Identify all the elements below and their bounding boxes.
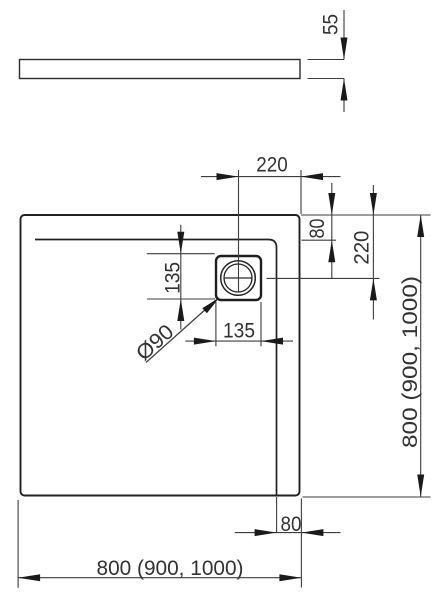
plan view: outer square [21,215,300,496]
drain square [216,256,261,300]
ext line drain left down [215,302,217,346]
arrow down at top edge ext [328,193,335,215]
ext line left edge below square [17,500,19,588]
top dimension 220 [201,176,341,178]
arrow up at drain bottom ext [177,299,184,321]
svg-text:800 (900, 1000): 800 (900, 1000) [97,557,244,580]
arrow right at drain left ext [194,338,216,345]
arrow up at top [417,215,424,237]
left vertical dimension 135 [180,225,182,330]
ext line drain center right [267,277,380,279]
right dimension 800 (900, 1000) [420,215,422,497]
ext line bottom edge right [303,496,431,498]
arrow left at left ext [18,574,40,581]
arrow down at top edge ext [370,193,377,215]
arrow left at right edge [301,173,323,180]
ext line drain bottom left [147,298,215,300]
leader arrowhead at drain corner [202,298,219,314]
arrow down at drain top ext [177,232,184,254]
arrow right at drain centerline [217,173,239,180]
arrow down at bottom [417,475,424,497]
arrow right at right ext [279,574,301,581]
ext line inner edge below square [276,497,278,533]
side view: tray profile rectangle [20,60,301,79]
extension line top edge (side view) [308,59,345,61]
leader line for drain diameter [146,300,216,363]
right dimension 80 [331,183,333,279]
ext line inner edge right [302,239,337,241]
arrow up at bottom edge [341,79,348,101]
extension line bottom edge (side view) [308,78,345,80]
svg-text:80: 80 [306,219,329,239]
right dimension 220 [372,185,374,320]
bottom dimension 800 (900, 1000) [18,577,301,579]
horizontal dimension 135 [185,340,293,342]
inner tray edge line [35,240,277,496]
arrow right at inner ext [255,529,277,536]
svg-text:135: 135 [223,319,255,342]
drain outer circle [221,261,256,296]
svg-text:55: 55 [320,14,343,35]
arrow left at drain right ext [261,338,283,345]
arrow up at inner edge ext [328,240,335,262]
ext line drain top left [147,253,215,255]
ext line outer right edge below square [300,499,302,588]
ext line right edge up [300,170,302,214]
svg-text:80: 80 [281,513,302,536]
arrow up at drain center ext [370,278,377,300]
drain inner circle [224,264,252,292]
svg-text:220: 220 [256,154,288,177]
drain centerline vertical (ext of top 220) [238,170,240,292]
svg-text:220: 220 [351,231,374,265]
svg-text:135: 135 [161,262,184,294]
drain crosshair horizontal [224,277,253,279]
ext line top edge right [301,214,431,216]
dimension line 55 vertical [343,10,345,112]
ext line drain right down [260,302,262,346]
arrow down at top edge [341,38,348,60]
bottom dimension 80 [235,532,341,534]
svg-text:800 (900, 1000): 800 (900, 1000) [399,276,422,448]
arrow left at outer ext [301,529,323,536]
